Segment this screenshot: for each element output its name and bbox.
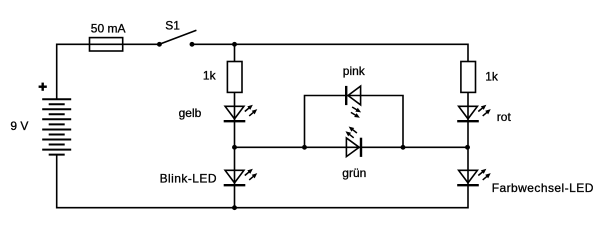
svg-text:1k: 1k xyxy=(485,70,499,84)
+ polarity mark xyxy=(39,83,47,91)
LED Blink-LED xyxy=(224,167,259,185)
LED gruen (points right) xyxy=(344,125,361,157)
resistor R1 xyxy=(227,62,242,93)
battery 9V xyxy=(42,99,71,154)
node left branch / bottom wire xyxy=(232,205,237,210)
wire: battery bottom, bottom rail, up right branch xyxy=(57,92,468,207)
svg-text:Farbwechsel-LED: Farbwechsel-LED xyxy=(492,181,594,195)
wire: battery top corner to fuse xyxy=(57,44,90,99)
wire through fuse to switch left contact xyxy=(90,43,160,45)
node top of left branch xyxy=(232,42,237,47)
node middle wire left xyxy=(302,145,307,150)
svg-text:gelb: gelb xyxy=(179,106,202,120)
node middle wire right xyxy=(401,145,406,150)
node middle wire at right branch xyxy=(465,145,470,150)
LED Farbwechsel-LED xyxy=(457,167,492,185)
fuse F1 xyxy=(90,38,123,51)
LED gelb xyxy=(224,103,259,121)
node left branch / middle wire xyxy=(232,145,237,150)
wire left branch upper xyxy=(234,44,236,61)
wire middle xyxy=(235,146,468,148)
wire left branch lower xyxy=(234,92,236,207)
svg-text:50 mA: 50 mA xyxy=(91,22,126,36)
svg-text:Blink-LED: Blink-LED xyxy=(160,171,217,185)
resistor R2 xyxy=(461,62,476,93)
switch S1 xyxy=(157,30,196,47)
svg-text:9 V: 9 V xyxy=(10,119,28,133)
svg-text:1k: 1k xyxy=(203,69,217,83)
svg-text:rot: rot xyxy=(497,110,512,124)
wire parallel box: left vertical, top, right vertical xyxy=(305,96,404,148)
svg-text:grün: grün xyxy=(342,166,366,180)
wire top: switch to right branch corner, down to resistor xyxy=(192,44,468,61)
LED pink (points left) xyxy=(346,86,362,120)
svg-text:S1: S1 xyxy=(165,19,180,33)
svg-text:pink: pink xyxy=(343,64,366,78)
LED rot xyxy=(457,103,492,121)
